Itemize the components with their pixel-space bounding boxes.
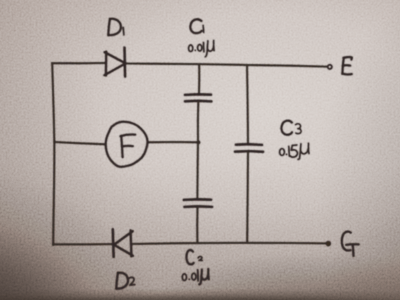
label C1 — [190, 19, 203, 33]
capacitor C2 — [184, 199, 212, 207]
wire bottom: left corner to D2 — [53, 243, 112, 246]
diode D1 — [104, 48, 125, 77]
diode D2 — [113, 229, 133, 256]
label D1 — [108, 19, 124, 35]
label G — [342, 232, 359, 256]
junction centre node — [197, 140, 201, 144]
wire middle: left vertical to F — [54, 142, 105, 144]
capacitor C1 — [185, 94, 211, 101]
terminal E (open circle) — [328, 65, 332, 69]
wire top: left corner to D1 anode — [52, 62, 105, 65]
wire centre branch lower (C2 to bottom wire) — [196, 207, 199, 242]
junction bottom-left corner — [52, 243, 55, 246]
wire centre branch upper (top wire to C1) — [198, 64, 201, 94]
terminal G (dot) — [326, 241, 331, 246]
label E — [342, 57, 351, 74]
label C2 — [186, 250, 202, 264]
label F — [121, 135, 136, 158]
wire centre branch middle (C1 to C2) — [196, 102, 199, 199]
wire bottom: D2 to node G — [131, 243, 326, 244]
value 0.01u (C2) — [182, 269, 209, 285]
motor F (circle) — [106, 122, 148, 167]
value 0.15u (C3) — [280, 143, 309, 159]
wire middle: F to centre branch — [148, 141, 198, 144]
label D2 — [116, 273, 135, 289]
wire C3 branch lower (C3 to bottom wire) — [246, 152, 249, 243]
capacitor C3 — [235, 144, 263, 152]
wire left vertical — [52, 63, 54, 244]
wire C3 branch upper (top wire to C3) — [247, 65, 248, 144]
wire top: D1 cathode to node E — [126, 64, 328, 67]
label C3 — [281, 121, 301, 135]
value 0.01u (C1) — [189, 41, 215, 57]
